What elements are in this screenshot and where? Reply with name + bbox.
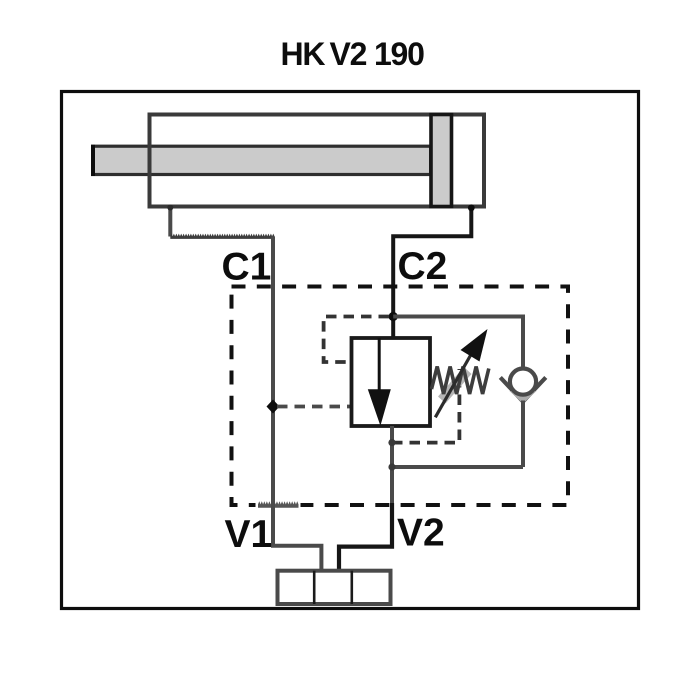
wire valve outlet <box>390 426 394 505</box>
piston rod <box>93 145 431 176</box>
pilot line from C2 (dashed hook) <box>324 317 389 363</box>
junction dot at cylinder rod-end <box>468 204 475 211</box>
manifold divider left <box>313 571 316 604</box>
wire to port V2 <box>339 503 392 571</box>
wire C1 line through enclosure to V1 <box>273 237 321 572</box>
piston <box>431 115 452 207</box>
manifold block <box>278 571 391 604</box>
pilot tee node <box>388 439 395 446</box>
pilot tap node on C1 line <box>267 400 280 414</box>
check valve ball <box>510 369 536 395</box>
svg-text:V1: V1 <box>225 513 273 556</box>
enclosure bottom sawtooth mark <box>256 501 301 510</box>
pilot line from C1 to valve (dashed) <box>277 405 352 409</box>
adjustment arrow <box>435 329 487 417</box>
bypass line right lower <box>521 401 525 468</box>
svg-text:C1: C1 <box>222 246 272 289</box>
manifold divider right <box>350 571 353 604</box>
pilot line spring side (dashed) <box>392 369 459 443</box>
cylinder left wall over rod <box>148 113 152 209</box>
counterbalance valve body <box>352 338 431 426</box>
bypass line top <box>393 317 523 367</box>
cylinder body <box>150 115 485 207</box>
bypass line bottom <box>392 465 523 469</box>
valve assembly dashed enclosure <box>232 287 569 506</box>
svg-text:V2: V2 <box>397 511 445 554</box>
svg-text:HK V2 190: HK V2 190 <box>281 36 425 72</box>
bypass tee node <box>388 463 395 470</box>
adjustment spring <box>432 367 489 395</box>
valve flow arrow <box>368 338 391 426</box>
junction dot at cylinder cap-end <box>167 205 173 211</box>
svg-text:C2: C2 <box>398 245 448 288</box>
check valve poppet shading <box>510 391 537 404</box>
bypass junction node on C2 line <box>389 312 398 321</box>
adjustment spring shading <box>438 367 472 404</box>
check valve seat <box>500 377 546 401</box>
wire cylinder rod-end to C2 <box>393 207 471 339</box>
wire cylinder cap-end to C1 (with sawtooth ledge) <box>170 207 274 239</box>
